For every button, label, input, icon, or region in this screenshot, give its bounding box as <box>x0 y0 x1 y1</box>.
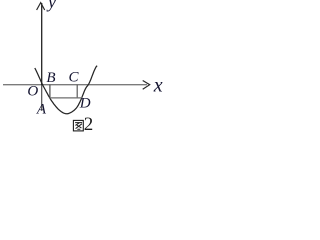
segment CD (right vertical of rectangle) <box>76 85 78 98</box>
svg-text:2: 2 <box>84 114 94 135</box>
y-axis arrowhead <box>37 3 45 10</box>
svg-text:B: B <box>46 70 55 86</box>
x-axis <box>3 84 147 86</box>
svg-text:A: A <box>36 101 47 117</box>
y-axis (above x-axis) <box>41 3 43 85</box>
segment AD (bottom horizontal) <box>50 97 82 99</box>
caption 图2 <box>73 120 83 130</box>
svg-text:C: C <box>69 70 80 86</box>
segment AB (left vertical of rectangle) <box>49 85 51 98</box>
svg-text:D: D <box>79 95 91 111</box>
x-axis arrowhead <box>143 81 150 90</box>
svg-text:x: x <box>153 74 163 96</box>
svg-text:O: O <box>27 84 38 100</box>
svg-text:y: y <box>46 0 56 12</box>
parabola <box>35 66 97 114</box>
y-axis (below x-axis, negative part) <box>41 85 43 111</box>
